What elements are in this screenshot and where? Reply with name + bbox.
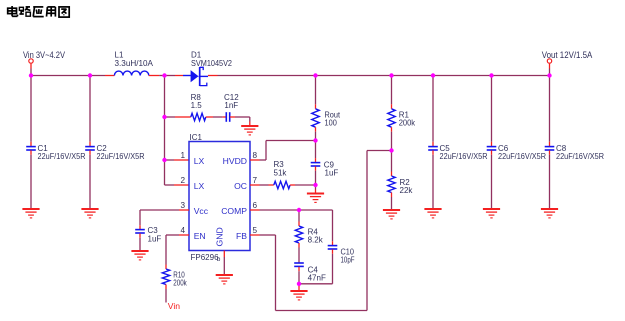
svg-text:1: 1 [180,151,185,160]
svg-text:SVM1045V2: SVM1045V2 [191,59,232,68]
svg-text:200k: 200k [173,279,187,288]
svg-text:8.2k: 8.2k [308,235,324,244]
svg-text:3.3uH/10A: 3.3uH/10A [115,59,154,68]
svg-text:22uF/16V/X5R: 22uF/16V/X5R [97,152,145,161]
svg-text:COMP: COMP [221,206,247,216]
svg-text:1nF: 1nF [224,101,238,110]
svg-text:3: 3 [180,201,185,210]
svg-text:100: 100 [325,119,338,128]
svg-text:IC1: IC1 [190,133,203,142]
svg-text:EN: EN [194,231,206,241]
svg-text:22uF/16V/X5R: 22uF/16V/X5R [440,152,488,161]
svg-text:Vcc: Vcc [194,206,209,216]
svg-text:22uF/16V/X5R: 22uF/16V/X5R [38,152,86,161]
svg-text:b: b [217,256,221,263]
svg-text:1uF: 1uF [148,234,162,243]
svg-text:FB: FB [236,231,247,241]
svg-text:HVDD: HVDD [223,156,247,166]
svg-text:2: 2 [180,176,185,185]
svg-text:OC: OC [234,181,247,191]
svg-text:1.5: 1.5 [191,101,203,110]
svg-text:LX: LX [194,181,205,191]
svg-text:5: 5 [253,226,258,235]
svg-text:1uF: 1uF [325,169,339,178]
svg-text:22uF/16V/X5R: 22uF/16V/X5R [498,152,546,161]
svg-text:200k: 200k [399,119,416,128]
svg-text:Vout 12V/1.5A: Vout 12V/1.5A [542,50,593,60]
svg-text:47nF: 47nF [308,273,326,282]
svg-text:8: 8 [253,151,258,160]
svg-text:22k: 22k [400,186,414,195]
svg-text:7: 7 [253,176,258,185]
svg-text:Vin: Vin [168,301,180,311]
svg-text:22uF/16V/X5R: 22uF/16V/X5R [556,152,604,161]
svg-text:51k: 51k [274,168,288,177]
svg-text:Vin 3V~4.2V: Vin 3V~4.2V [23,50,65,60]
svg-text:10pF: 10pF [341,256,355,265]
svg-text:4: 4 [180,226,185,235]
svg-text:GND: GND [215,227,225,246]
svg-text:LX: LX [194,156,205,166]
svg-text:FP6296: FP6296 [191,253,220,262]
svg-text:6: 6 [253,201,258,210]
